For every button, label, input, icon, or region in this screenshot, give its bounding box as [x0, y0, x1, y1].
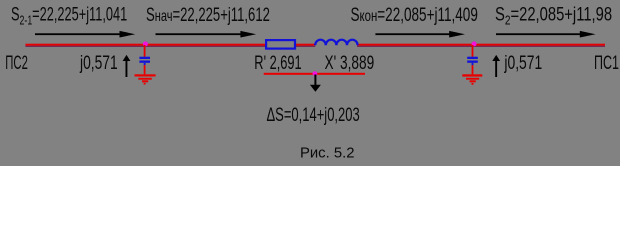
resistor R' — [266, 40, 295, 49]
capacitor left plate 1 — [139, 57, 150, 59]
svg-text:ПС2: ПС2 — [5, 53, 28, 74]
arrow flow Snach — [156, 31, 257, 38]
right shunt stem lower — [472, 65, 474, 74]
svg-text:X' 3,889: X' 3,889 — [325, 52, 375, 74]
svg-text:R' 2,691: R' 2,691 — [254, 52, 301, 73]
wire segment left (PS2 to resistor) — [25, 44, 266, 47]
svg-text:Sкон=22,085+j11,409: Sкон=22,085+j11,409 — [351, 5, 478, 26]
arrow charging left (up) — [123, 55, 131, 77]
right shunt stem upper — [472, 45, 474, 57]
svg-text:ΔS=0,14+j0,203: ΔS=0,14+j0,203 — [267, 105, 360, 126]
wire segment right (inductor to PS1) — [357, 44, 605, 47]
arrow flow S2-1 — [35, 31, 135, 38]
node losses junction — [313, 71, 318, 76]
capacitor right stub — [472, 63, 474, 65]
capacitor left stub — [144, 63, 146, 65]
capacitor left plate 2 — [139, 61, 150, 63]
arrow losses (down) — [310, 75, 321, 92]
ground right — [462, 74, 482, 84]
wire segment between resistor and inductor — [296, 44, 315, 47]
svg-text:Sнач=22,225+j11,612: Sнач=22,225+j11,612 — [146, 5, 270, 26]
node right shunt junction — [472, 41, 477, 46]
left shunt stem lower — [144, 65, 146, 74]
arrow charging right (up) — [492, 55, 500, 77]
inductor X' — [315, 40, 357, 46]
svg-text:ПС1: ПС1 — [594, 52, 619, 73]
svg-text:S2=22,085+j11,98: S2=22,085+j11,98 — [495, 4, 612, 28]
capacitor right plate 1 — [467, 57, 478, 59]
arrow flow Skon — [375, 31, 465, 38]
ground left — [135, 74, 156, 84]
svg-text:j0,571: j0,571 — [79, 52, 118, 74]
svg-text:Рис. 5.2: Рис. 5.2 — [300, 144, 354, 161]
left shunt stem upper — [144, 45, 146, 57]
node left shunt junction — [143, 41, 148, 46]
line under R X values — [264, 73, 365, 75]
capacitor right plate 2 — [467, 61, 478, 63]
arrow flow S2 — [496, 31, 596, 38]
svg-text:j0,571: j0,571 — [504, 52, 543, 74]
